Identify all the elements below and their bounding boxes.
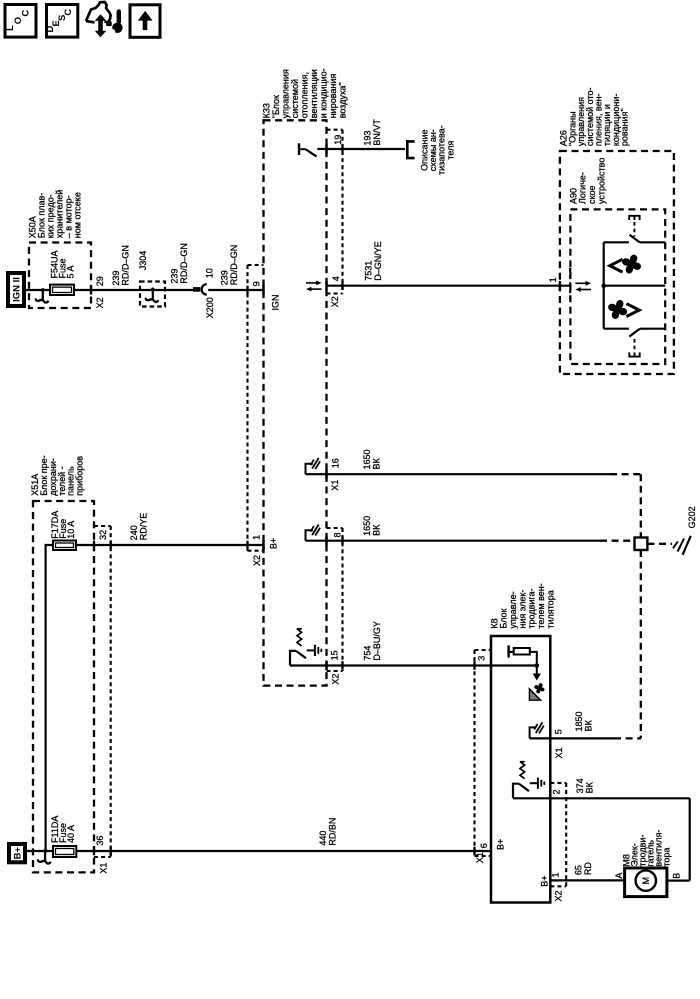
svg-text:10: 10 bbox=[205, 268, 215, 278]
svg-text:G202: G202 bbox=[687, 506, 697, 528]
svg-text:4: 4 bbox=[331, 276, 341, 281]
svg-text:D–GN/YE: D–GN/YE bbox=[373, 241, 383, 281]
svg-text:ВК: ВК bbox=[371, 524, 381, 536]
svg-text:C: C bbox=[63, 9, 74, 16]
svg-text:ВК: ВК bbox=[371, 457, 381, 469]
svg-text:X2: X2 bbox=[554, 890, 564, 901]
svg-text:BN/VT: BN/VT bbox=[372, 119, 382, 146]
svg-text:1: 1 bbox=[548, 277, 558, 282]
svg-text:C: C bbox=[21, 10, 32, 17]
svg-text:15: 15 bbox=[330, 650, 340, 660]
svg-text:X2: X2 bbox=[330, 674, 340, 685]
svg-text:RD/YE: RD/YE bbox=[139, 513, 149, 541]
svg-text:B+: B+ bbox=[539, 875, 549, 886]
svg-text:3: 3 bbox=[476, 656, 486, 661]
svg-text:М: М bbox=[641, 877, 651, 885]
svg-text:X1: X1 bbox=[330, 480, 340, 491]
svg-text:5 A: 5 A bbox=[66, 265, 76, 278]
svg-text:рования": рования" bbox=[620, 108, 630, 146]
svg-text:40 A: 40 A bbox=[66, 825, 76, 843]
svg-text:B+: B+ bbox=[13, 847, 24, 860]
svg-text:RD/D–GN: RD/D–GN bbox=[179, 243, 189, 284]
svg-text:теля: теля bbox=[445, 141, 455, 160]
svg-text:ВК: ВК bbox=[584, 719, 594, 731]
svg-text:1: 1 bbox=[252, 535, 262, 540]
svg-text:X2: X2 bbox=[330, 296, 340, 307]
svg-text:J304: J304 bbox=[138, 251, 148, 271]
svg-text:O: O bbox=[13, 17, 24, 24]
svg-text:D–BU/GY: D–BU/GY bbox=[372, 621, 382, 661]
svg-text:X1: X1 bbox=[475, 852, 485, 863]
svg-text:X2: X2 bbox=[252, 555, 262, 566]
svg-text:RD/BN: RD/BN bbox=[327, 818, 337, 846]
svg-text:29: 29 bbox=[95, 276, 105, 286]
svg-text:32: 32 bbox=[98, 530, 108, 540]
svg-text:B+: B+ bbox=[269, 538, 279, 549]
svg-text:L: L bbox=[5, 25, 16, 31]
svg-text:IGN II: IGN II bbox=[12, 277, 23, 302]
svg-text:16: 16 bbox=[330, 458, 340, 468]
svg-text:устройство: устройство bbox=[596, 158, 606, 204]
svg-text:ном отсеке: ном отсеке bbox=[73, 192, 83, 238]
svg-text:5: 5 bbox=[553, 729, 563, 734]
svg-text:8: 8 bbox=[333, 532, 343, 537]
svg-text:X1: X1 bbox=[554, 747, 564, 758]
svg-text:B+: B+ bbox=[496, 839, 506, 850]
svg-text:9: 9 bbox=[252, 281, 262, 286]
svg-text:А: А bbox=[614, 873, 624, 879]
svg-text:воздуха": воздуха" bbox=[337, 82, 347, 118]
svg-text:X200: X200 bbox=[205, 297, 215, 318]
svg-text:10 A: 10 A bbox=[66, 521, 76, 539]
svg-text:ВК: ВК bbox=[585, 781, 595, 793]
svg-text:тилятора: тилятора bbox=[545, 590, 555, 628]
svg-text:IGN: IGN bbox=[270, 294, 280, 310]
svg-text:2: 2 bbox=[552, 789, 562, 794]
svg-text:RD/D–GN: RD/D–GN bbox=[229, 245, 239, 286]
svg-text:19: 19 bbox=[333, 135, 343, 145]
svg-text:приборов: приборов bbox=[75, 456, 85, 496]
svg-text:X2: X2 bbox=[95, 297, 105, 308]
svg-text:RD/D–GN: RD/D–GN bbox=[120, 245, 130, 286]
svg-text:6: 6 bbox=[479, 843, 489, 848]
svg-text:В: В bbox=[672, 873, 682, 879]
svg-text:RD: RD bbox=[583, 862, 593, 875]
svg-text:X1: X1 bbox=[98, 863, 108, 874]
svg-text:1: 1 bbox=[551, 872, 561, 877]
svg-text:тора: тора bbox=[662, 848, 672, 867]
svg-text:36: 36 bbox=[95, 836, 105, 846]
